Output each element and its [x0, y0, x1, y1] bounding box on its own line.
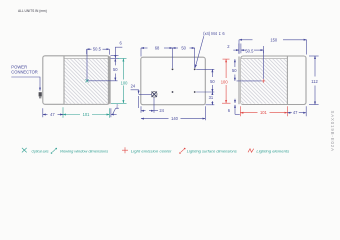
dim 47: [43, 114, 48, 116]
svg-text:31: 31: [209, 95, 214, 100]
body housing outline: [241, 56, 306, 105]
lens face plate: [238, 56, 240, 104]
bottom dim 47: [305, 106, 307, 116]
bottom dim 24 (axis offset): [140, 106, 142, 113]
svg-text:101: 101: [83, 112, 91, 117]
dim 50 vertical (left view, window top to optical axis): [114, 59, 116, 66]
svg-text:68: 68: [155, 46, 160, 51]
dim 2 (lens lip): [111, 114, 117, 116]
svg-text:47: 47: [50, 112, 55, 117]
right dims 50 / 31: [196, 68, 214, 70]
svg-text:100: 100: [221, 80, 229, 85]
svg-text:Lighting surface dimensions: Lighting surface dimensions: [187, 148, 237, 153]
legend lighting surface icon: [179, 148, 185, 154]
top dims 68 / 50: [140, 48, 142, 57]
left view bottom dims 47 / 101 / 2: [42, 108, 44, 117]
svg-text:(x4) M4 ↧ 6: (x4) M4 ↧ 6: [203, 31, 225, 36]
lens window hatch: [64, 59, 108, 104]
svg-text:50: 50: [113, 67, 118, 72]
svg-text:SAX019B-E02A: SAX019B-E02A: [330, 111, 335, 152]
dim 50.5 (right view): [262, 46, 264, 53]
dim 101 teal: [63, 114, 80, 116]
svg-text:150: 150: [270, 37, 278, 42]
navy dim 50 (surface top to emission center): [234, 59, 236, 67]
svg-text:24: 24: [159, 108, 164, 113]
light emission center + (red): [262, 79, 266, 83]
bottom dim 140: [204, 106, 206, 120]
svg-text:Optical axis: Optical axis: [32, 148, 49, 153]
svg-text:Light emission center: Light emission center: [131, 148, 172, 153]
svg-text:50: 50: [232, 68, 237, 73]
housing/lens divider: [286, 56, 288, 105]
svg-text:Lighting elements: Lighting elements: [256, 148, 289, 153]
lens window hatch: [241, 59, 287, 104]
rear housing outline: [141, 57, 206, 104]
body housing outline: [43, 56, 110, 105]
right dim 112: [309, 55, 319, 57]
optical axis X: [152, 92, 157, 97]
svg-text:Viewing window dimensions: Viewing window dimensions: [60, 148, 109, 153]
svg-text:47: 47: [293, 110, 298, 115]
window top edge: [241, 58, 287, 60]
power connector leader: [11, 77, 40, 91]
svg-text:101: 101: [260, 110, 268, 115]
legend emission center icon: [122, 147, 128, 153]
window top edge: [64, 58, 108, 60]
mounting holes M4 x4: [172, 68, 174, 70]
power connector body: [39, 92, 42, 96]
svg-text:24: 24: [131, 83, 136, 88]
axis reference line into marker: [139, 93, 152, 95]
emission center reference lines: [262, 50, 264, 79]
svg-text:50: 50: [181, 46, 186, 51]
svg-text:140: 140: [171, 116, 179, 121]
lens face plate: [107, 56, 109, 105]
optical axis mark X (teal): [85, 79, 88, 82]
M4 leader: [195, 36, 204, 67]
svg-text:CONNECTOR: CONNECTOR: [11, 70, 38, 75]
bottom dim 101 red (lighting surface width): [239, 106, 241, 116]
legend viewing window icon: [51, 148, 57, 154]
svg-text:112: 112: [311, 79, 318, 84]
dim 6 (surface bottom offset): [234, 99, 236, 103]
optical axis marker circle: [151, 92, 157, 98]
top dim 150: [238, 40, 240, 54]
housing/lens divider: [63, 56, 65, 105]
svg-text:50.5: 50.5: [93, 46, 102, 51]
optical axis crosshair lines: [87, 49, 118, 81]
dim 100 vertical teal (window height): [118, 57, 127, 59]
red dim 100 (lighting surface height): [223, 58, 230, 60]
legend optical axis icon: [22, 148, 27, 153]
svg-text:ALL UNITS IN (mm): ALL UNITS IN (mm): [18, 8, 47, 13]
dim 50.5 top (left view): [86, 49, 88, 54]
legend lighting elements icon: [248, 149, 254, 153]
svg-text:50: 50: [210, 79, 215, 84]
svg-text:50.5: 50.5: [245, 48, 254, 53]
svg-text:100: 100: [121, 80, 129, 85]
